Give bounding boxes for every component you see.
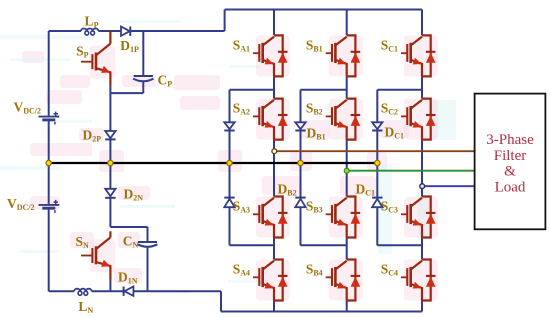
svg-text:3-Phase: 3-Phase <box>486 132 534 148</box>
svg-text:SA4: SA4 <box>233 262 250 278</box>
svg-text:SA1: SA1 <box>233 37 250 53</box>
svg-text:D1P: D1P <box>120 38 139 54</box>
svg-text:CP: CP <box>158 73 173 89</box>
svg-text:Load: Load <box>495 180 526 196</box>
svg-text:&: & <box>504 163 516 179</box>
svg-text:SC1: SC1 <box>381 37 398 53</box>
svg-text:SB4: SB4 <box>306 262 323 278</box>
svg-text:SP: SP <box>76 44 89 60</box>
svg-text:SA3: SA3 <box>233 199 250 215</box>
svg-text:LN: LN <box>78 299 93 315</box>
svg-text:SA2: SA2 <box>233 101 250 117</box>
svg-text:Filter: Filter <box>494 148 527 164</box>
svg-text:SB1: SB1 <box>306 37 323 53</box>
svg-text:SC4: SC4 <box>381 262 398 278</box>
svg-text:SB3: SB3 <box>306 199 323 215</box>
svg-text:SC2: SC2 <box>381 101 398 117</box>
svg-text:LP: LP <box>85 14 99 30</box>
svg-text:VDC/2: VDC/2 <box>14 100 42 116</box>
svg-text:SB2: SB2 <box>306 101 323 117</box>
